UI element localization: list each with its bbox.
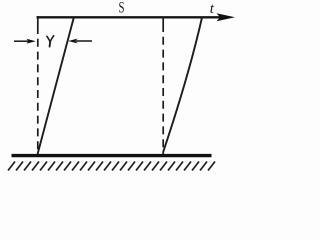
original left edge (dashed) [37, 16, 39, 26]
force arrow head (shear force t) [217, 13, 236, 21]
label gamma [47, 36, 54, 47]
ground line [12, 154, 212, 157]
ground hatching [8, 162, 215, 171]
dimension arrow right (points left at slanted edge) [76, 40, 92, 42]
deformed right edge (slanted) [163, 18, 202, 153]
original right edge (dashed) [162, 18, 164, 24]
svg-text:S: S [119, 0, 125, 17]
top plate line [37, 16, 223, 18]
dimension arrow left (points right at dashed edge) [14, 40, 30, 42]
deformed left edge (slanted) [38, 18, 74, 155]
